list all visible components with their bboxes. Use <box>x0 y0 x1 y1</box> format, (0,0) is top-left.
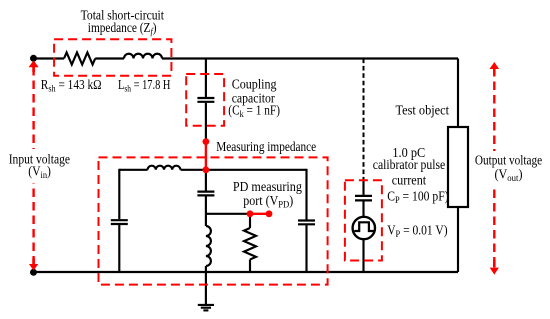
svg-text:Test object: Test object <box>396 103 450 118</box>
inductor Lsh <box>124 54 162 59</box>
wire: top bus segment resistor-to-inductor <box>95 57 124 59</box>
wire: PD port red stub <box>250 213 269 215</box>
wire: calibrator dashed link <box>363 59 365 182</box>
wire: measuring box top right segment <box>181 169 307 171</box>
wire: center branch capacitor-to-junction <box>205 196 207 213</box>
svg-text:Lsh = 17.8 H: Lsh = 17.8 H <box>118 77 171 95</box>
wire: calibrator source-to-bottom <box>362 239 364 272</box>
capacitor (right branch) plates <box>298 221 315 225</box>
wire: PD tap horizontal <box>206 213 250 215</box>
wire: measuring box left branch lower <box>118 225 120 272</box>
test object body <box>448 127 468 207</box>
wire: bottom bus <box>34 271 459 273</box>
inductor (measuring box series) <box>148 166 181 170</box>
node: input bottom node <box>30 269 37 276</box>
resistor Rsh <box>64 53 95 65</box>
wire: calibrator capacitor-to-source <box>362 201 364 217</box>
node: input top node <box>30 55 37 62</box>
pulse source waveform <box>354 222 373 231</box>
wire: calibrator branch upper <box>362 181 364 195</box>
svg-text:Measuring impedance: Measuring impedance <box>216 139 316 154</box>
capacitor (left branch) plates <box>111 220 128 224</box>
node: PD port left (red) <box>247 210 254 217</box>
wire: top bus segment node-to-resistor <box>34 57 65 59</box>
wire: center branch junction-to-coil <box>205 214 207 226</box>
ground <box>198 305 214 311</box>
svg-text:Rsh = 143 kΩ: Rsh = 143 kΩ <box>41 77 102 95</box>
node: PD port right (red) <box>266 210 273 217</box>
resistor (measuring shunt) <box>244 228 256 259</box>
inductor (center shunt coil) <box>206 226 211 266</box>
input voltage arrow (red dashed, double-headed) <box>3 60 73 270</box>
svg-text:Output voltage: Output voltage <box>475 153 542 168</box>
wire: measuring box top left segment <box>119 169 147 171</box>
svg-text:impedance (Zf): impedance (Zf) <box>88 20 157 38</box>
svg-text:current: current <box>392 173 427 188</box>
wire: top bus segment inductor-to-right-corner <box>162 57 458 59</box>
wire: ground stem <box>205 272 207 305</box>
svg-text:calibrator pulse: calibrator pulse <box>373 157 446 172</box>
dashed box: calibrator <box>345 180 382 260</box>
svg-text:VP = 0.01 V): VP = 0.01 V) <box>387 222 447 240</box>
dashed box: measuring impedance <box>99 157 328 284</box>
wire: coupling capacitor branch upper <box>205 59 207 98</box>
capacitor CP plates <box>355 196 372 201</box>
wire: resistor branch upper <box>249 214 251 228</box>
output voltage arrow (red dashed, double-headed) <box>470 62 546 275</box>
dashed box: total short-circuit impedance <box>54 39 171 75</box>
node: measuring impedance tap (red) <box>203 138 210 145</box>
wire: right vertical top-to-test-object <box>457 59 459 128</box>
wire: center branch coil-to-bottom <box>205 266 207 272</box>
dashed box: coupling capacitor <box>186 74 224 126</box>
pulse source VP circle <box>353 217 375 239</box>
wire: red tap link <box>205 142 207 170</box>
capacitor (center branch) plates <box>197 192 214 196</box>
wire: measuring box right branch upper <box>305 169 307 220</box>
svg-text:(Ck = 1 nF): (Ck = 1 nF) <box>228 102 280 120</box>
wire: test object to bottom bus <box>457 207 459 272</box>
svg-text:CP = 100 pF): CP = 100 pF) <box>387 189 448 207</box>
node: measuring impedance top junction (red) <box>203 166 210 173</box>
wire: coupling capacitor branch lower <box>205 103 207 142</box>
svg-text:port (VPD): port (VPD) <box>243 193 293 211</box>
wire: measuring box left branch upper <box>118 169 120 219</box>
wire: measuring box right branch lower <box>305 225 307 272</box>
capacitor Ck plates <box>197 98 214 102</box>
wire: center branch above capacitor <box>205 170 207 191</box>
wire: resistor branch lower <box>249 260 251 273</box>
svg-text:(Vin): (Vin) <box>28 164 51 182</box>
